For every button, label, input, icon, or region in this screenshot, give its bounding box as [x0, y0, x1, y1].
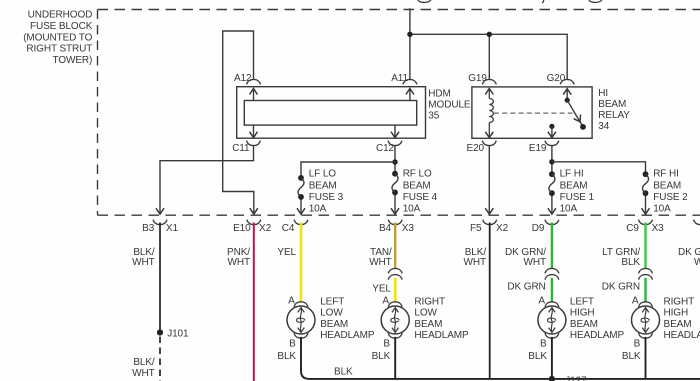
svg-text:B4: B4 [379, 223, 392, 234]
svg-text:BEAM: BEAM [653, 180, 681, 191]
svg-text:34: 34 [598, 121, 609, 132]
svg-text:HEADLAMP: HEADLAMP [414, 330, 469, 341]
svg-text:G19: G19 [468, 73, 487, 84]
svg-text:A: A [632, 295, 639, 306]
svg-text:FUSE 1: FUSE 1 [560, 192, 595, 203]
svg-text:UNDERHOOD: UNDERHOOD [28, 10, 93, 21]
svg-text:LEFT: LEFT [320, 297, 344, 308]
svg-text:WHT: WHT [228, 257, 250, 268]
svg-text:HEADLAMP: HEADLAMP [664, 330, 700, 341]
svg-text:10A: 10A [560, 204, 578, 215]
svg-text:MODULE: MODULE [428, 99, 471, 110]
svg-text:BEAM: BEAM [664, 319, 692, 330]
svg-text:BLK: BLK [621, 257, 640, 268]
svg-text:BLK: BLK [622, 351, 641, 362]
svg-text:10A: 10A [653, 204, 671, 215]
svg-text:DK GRN: DK GRN [507, 282, 545, 293]
svg-text:BLK: BLK [528, 351, 547, 362]
svg-text:X2: X2 [259, 223, 272, 234]
svg-text:E19: E19 [529, 143, 547, 154]
svg-text:WHT: WHT [369, 257, 391, 268]
svg-text:C4: C4 [282, 223, 295, 234]
svg-text:RF LO: RF LO [403, 169, 432, 180]
svg-text:A: A [382, 295, 389, 306]
svg-text:FUSE 2: FUSE 2 [653, 192, 688, 203]
svg-text:FUSE 4: FUSE 4 [403, 192, 438, 203]
svg-text:BEAM: BEAM [598, 99, 626, 110]
svg-text:WHT: WHT [524, 257, 546, 268]
svg-text:J127: J127 [565, 375, 587, 381]
svg-text:YEL: YEL [372, 284, 391, 295]
svg-text:HI: HI [598, 88, 608, 99]
svg-text:BEAM: BEAM [309, 180, 337, 191]
svg-text:YEL: YEL [277, 247, 296, 258]
svg-text:WHT: WHT [464, 257, 486, 268]
svg-text:WHT: WHT [132, 368, 154, 379]
svg-text:LOW: LOW [414, 308, 437, 319]
svg-text:F5: F5 [470, 223, 482, 234]
svg-text:D9: D9 [532, 223, 545, 234]
svg-text:HDM: HDM [428, 88, 450, 99]
svg-text:BEAM: BEAM [403, 180, 431, 191]
svg-text:RF HI: RF HI [653, 169, 679, 180]
svg-text:B: B [540, 339, 547, 350]
svg-text:C9: C9 [626, 223, 639, 234]
svg-text:A: A [538, 295, 545, 306]
svg-text:RIGHT STRUT: RIGHT STRUT [26, 44, 92, 55]
svg-text:BEAM: BEAM [414, 319, 442, 330]
svg-text:C12: C12 [376, 143, 395, 154]
svg-text:HIGH: HIGH [570, 308, 595, 319]
svg-text:10A: 10A [309, 204, 327, 215]
svg-text:HIGH: HIGH [664, 308, 689, 319]
svg-text:A11: A11 [391, 73, 408, 84]
svg-text:WHT: WHT [132, 257, 154, 268]
svg-text:BLK: BLK [334, 367, 353, 378]
svg-text:B: B [289, 339, 296, 350]
svg-text:B: B [634, 339, 641, 350]
svg-text:BEAM: BEAM [320, 319, 348, 330]
svg-text:35: 35 [428, 110, 439, 121]
svg-text:J101: J101 [167, 328, 189, 339]
svg-text:(MOUNTED TO: (MOUNTED TO [23, 32, 92, 43]
svg-text:BLK: BLK [372, 351, 391, 362]
svg-text:RIGHT: RIGHT [414, 297, 445, 308]
svg-text:C11: C11 [232, 143, 250, 154]
svg-text:RELAY: RELAY [598, 110, 630, 121]
svg-text:HEADLAMP: HEADLAMP [570, 330, 625, 341]
svg-text:B: B [383, 339, 390, 350]
svg-text:TOWER): TOWER) [53, 55, 93, 66]
svg-text:A12: A12 [234, 73, 252, 84]
svg-text:LEFT: LEFT [570, 297, 594, 308]
svg-text:BLK/: BLK/ [133, 357, 155, 368]
svg-text:X3: X3 [402, 223, 415, 234]
svg-text:WHT: WHT [694, 257, 700, 268]
svg-text:E20: E20 [467, 143, 485, 154]
svg-text:FUSE BLOCK: FUSE BLOCK [30, 21, 93, 32]
svg-text:FUSE 3: FUSE 3 [309, 192, 344, 203]
svg-text:X3: X3 [652, 223, 665, 234]
svg-text:HEADLAMP: HEADLAMP [320, 330, 375, 341]
svg-text:BLK: BLK [277, 351, 296, 362]
svg-text:RIGHT: RIGHT [664, 297, 695, 308]
svg-text:LOW: LOW [320, 308, 343, 319]
svg-text:10A: 10A [403, 204, 421, 215]
svg-text:LF LO: LF LO [309, 169, 337, 180]
svg-text:LF HI: LF HI [560, 169, 584, 180]
svg-text:BEAM: BEAM [560, 180, 588, 191]
svg-text:BEAM: BEAM [570, 319, 598, 330]
svg-text:X2: X2 [496, 223, 509, 234]
svg-text:E10: E10 [233, 223, 251, 234]
svg-text:X1: X1 [166, 223, 179, 234]
svg-text:B3: B3 [142, 223, 155, 234]
svg-text:G20: G20 [547, 73, 566, 84]
svg-text:A: A [288, 295, 295, 306]
svg-text:DK GRN: DK GRN [602, 282, 640, 293]
